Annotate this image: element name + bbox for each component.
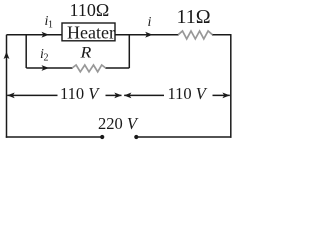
- svg-text:i: i: [148, 15, 152, 30]
- svg-text:110 V: 110 V: [60, 84, 100, 103]
- svg-text:2: 2: [44, 53, 49, 64]
- svg-text:11Ω: 11Ω: [177, 6, 211, 28]
- svg-text:1: 1: [48, 19, 53, 30]
- svg-text:R: R: [79, 44, 91, 61]
- svg-text:110Ω: 110Ω: [70, 0, 110, 20]
- svg-text:110 V: 110 V: [168, 84, 208, 103]
- svg-text:Heater: Heater: [67, 23, 115, 43]
- svg-text:220 V: 220 V: [98, 114, 139, 133]
